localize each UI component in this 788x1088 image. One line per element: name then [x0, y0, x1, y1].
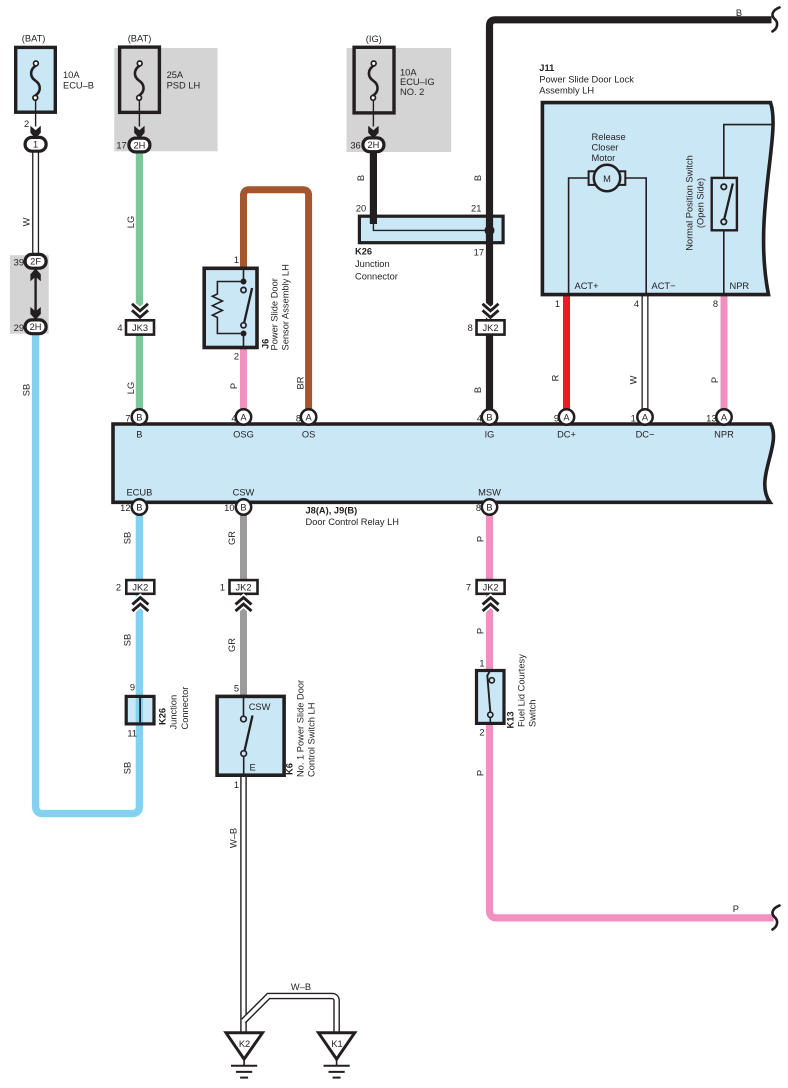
J11 NPR switch wires [724, 125, 772, 178]
svg-text:NPR: NPR [714, 430, 734, 440]
svg-text:OS: OS [302, 430, 315, 440]
svg-text:36: 36 [350, 140, 360, 150]
svg-text:12: 12 [120, 503, 130, 513]
svg-text:P: P [733, 904, 739, 914]
relay bottom circle B pin12 ECUB [132, 499, 147, 514]
svg-text:1: 1 [234, 255, 239, 265]
K26 upper junction dot [485, 225, 495, 235]
relay labels [120, 412, 734, 527]
svg-text:GR: GR [227, 638, 237, 652]
wire SB from 2H down-left loop to ECUB [36, 332, 140, 814]
svg-text:(Open Side): (Open Side) [696, 178, 706, 228]
wire GR from relay CSW to K6 pin 5 [240, 512, 247, 698]
svg-text:B: B [136, 412, 142, 422]
svg-text:K26: K26 [355, 247, 372, 257]
break symbol bottom right P wire [772, 906, 779, 930]
svg-text:CSW: CSW [233, 488, 255, 498]
svg-text:17: 17 [116, 141, 126, 151]
svg-text:B: B [473, 175, 483, 181]
K6 switch internals [241, 698, 253, 774]
junction JK2 (7) chevrons [483, 598, 499, 612]
svg-text:Release: Release [592, 132, 626, 142]
svg-text:13: 13 [706, 413, 716, 423]
fuse F2 symbol [135, 61, 144, 127]
K13 switch internals [487, 672, 494, 722]
svg-text:2: 2 [24, 119, 29, 129]
svg-text:P: P [476, 536, 486, 542]
K13 labels [479, 654, 537, 738]
svg-text:ACT−: ACT− [652, 281, 676, 291]
svg-text:21: 21 [471, 203, 481, 213]
svg-text:NPR: NPR [730, 281, 750, 291]
J6 internal: top lead [243, 270, 245, 281]
svg-text:SB: SB [123, 762, 133, 774]
svg-text:4: 4 [634, 299, 639, 309]
relay top circle A pin8 OS [301, 409, 316, 424]
svg-text:B: B [136, 430, 142, 440]
svg-text:P: P [229, 383, 239, 389]
svg-text:1: 1 [234, 780, 239, 790]
svg-text:A: A [563, 412, 570, 422]
svg-text:K2: K2 [239, 1039, 250, 1049]
break symbol top right B wire [772, 7, 779, 31]
relay bottom circle B pin10 CSW [236, 499, 251, 514]
J6 switch lever and contacts [241, 279, 253, 347]
svg-text:P: P [476, 628, 486, 634]
svg-text:2H: 2H [367, 140, 379, 150]
svg-text:MSW: MSW [478, 488, 501, 498]
fuse F1 10A ECU-B box [16, 47, 56, 112]
svg-text:(BAT): (BAT) [128, 34, 152, 44]
fuse F2 25A PSD LH box [120, 47, 160, 112]
relay top circle A pin13 NPR [716, 409, 731, 424]
junction JK2 (7) box [477, 580, 505, 594]
normal position switch contacts and lever [721, 184, 733, 225]
svg-text:SB: SB [22, 384, 32, 396]
connector 2F 2H labels [14, 257, 42, 333]
relay top circle B pin4 IG [482, 409, 497, 424]
J6 resistor branch [212, 282, 243, 334]
svg-text:W–B: W–B [229, 828, 239, 848]
wire W from J11 ACT- to relay DC- (white wire) [642, 296, 649, 411]
fuse F3 labels [350, 34, 434, 150]
svg-text:2: 2 [234, 352, 239, 362]
svg-text:A: A [642, 412, 649, 422]
svg-text:GR: GR [227, 531, 237, 545]
svg-text:J11: J11 [539, 63, 554, 73]
junction JK2 (2) chevrons [132, 598, 148, 612]
svg-text:JK2: JK2 [483, 583, 499, 593]
relay top circle B pin7 [132, 409, 147, 424]
junction connector K26 lower fill [126, 696, 154, 724]
svg-text:DC−: DC− [636, 430, 655, 440]
svg-text:K26: K26 [158, 708, 168, 725]
junction JK2 (8) chevrons [483, 304, 499, 318]
wire B from ECU-IG fuse to K26 pin 20 [370, 151, 377, 224]
fuse F1 labels [22, 34, 94, 150]
double arrow between 2F and 2H [30, 269, 40, 320]
svg-text:4: 4 [117, 323, 122, 333]
svg-text:Connector: Connector [355, 272, 398, 282]
K26 upper labels [355, 203, 484, 281]
svg-text:NO. 2: NO. 2 [400, 87, 424, 97]
svg-text:4: 4 [231, 413, 236, 423]
svg-text:B: B [486, 502, 492, 512]
K26 lower labels [127, 682, 190, 738]
svg-text:ACT+: ACT+ [575, 281, 599, 291]
svg-text:39: 39 [14, 257, 24, 267]
svg-text:P: P [710, 377, 720, 383]
svg-text:1: 1 [555, 299, 560, 309]
motor M release closer motor [589, 165, 626, 191]
svg-text:Power Slide Door: Power Slide Door [269, 278, 279, 350]
svg-text:1: 1 [33, 140, 38, 150]
svg-text:9: 9 [554, 413, 559, 423]
JK junction labels [116, 323, 499, 593]
J11 Power Slide Door Lock Assembly LH box [542, 103, 773, 295]
svg-text:Junction: Junction [355, 259, 390, 269]
wire W-B from K6 pin 1 to ground K2 (white wire) [240, 773, 247, 1034]
relay bottom circle B pin8 MSW [482, 499, 497, 514]
J11 labels [539, 63, 749, 309]
wire LG fuse2 to relay pin 7 [136, 152, 143, 411]
svg-text:SB: SB [123, 532, 133, 544]
J6 labels [234, 255, 290, 362]
svg-text:B: B [473, 387, 483, 393]
svg-text:1: 1 [220, 583, 225, 593]
svg-text:K13: K13 [506, 711, 516, 728]
svg-text:B: B [136, 502, 142, 512]
svg-text:B: B [240, 502, 246, 512]
svg-text:10: 10 [224, 503, 234, 513]
junction JK2 (1) box [230, 580, 258, 594]
K6 No.1 Power Slide Door Control Switch LH box [217, 696, 284, 775]
svg-text:2: 2 [479, 727, 484, 737]
svg-text:A: A [240, 412, 247, 422]
fuse F1 symbol [31, 61, 40, 127]
ground K1 [319, 1033, 355, 1078]
svg-text:7: 7 [466, 583, 471, 593]
J11 motor wires [569, 178, 589, 293]
svg-text:8: 8 [713, 299, 718, 309]
wire W fuse1 to 2F (white wire) [32, 151, 39, 256]
door control relay J8/J9 box [113, 424, 773, 502]
svg-text:LG: LG [126, 216, 136, 228]
svg-text:W–B: W–B [291, 982, 311, 992]
junction connector K26 upper border [359, 216, 503, 243]
svg-text:2H: 2H [30, 322, 42, 332]
svg-text:CSW: CSW [249, 702, 271, 712]
fuse F3 10A ECU-IG NO.2 box [354, 47, 394, 113]
svg-text:4: 4 [477, 413, 482, 423]
svg-text:R: R [551, 374, 561, 381]
fuse F3 symbol [369, 61, 378, 127]
J6 Power Slide Door Sensor Assembly LH box [204, 268, 257, 347]
svg-text:5: 5 [234, 684, 239, 694]
svg-text:IG: IG [485, 430, 495, 440]
svg-text:JK3: JK3 [132, 323, 148, 333]
svg-text:11: 11 [127, 729, 137, 739]
wire P from J6 pin 2 to relay OSG [240, 349, 247, 411]
svg-text:K6: K6 [285, 763, 295, 775]
svg-text:1: 1 [479, 659, 484, 669]
svg-text:PSD LH: PSD LH [167, 80, 201, 90]
svg-text:10A: 10A [400, 67, 417, 77]
connector oval 2H left [25, 320, 46, 334]
svg-text:10A: 10A [63, 70, 80, 80]
svg-text:A: A [305, 412, 312, 422]
wire BR from J6 pin 1 over to relay OS [244, 190, 309, 411]
svg-text:(IG): (IG) [366, 34, 382, 44]
relay top circle A pin1 DC- [637, 409, 652, 424]
junction JK2 (1) chevrons [236, 598, 252, 612]
svg-text:P: P [476, 770, 486, 776]
svg-text:2F: 2F [30, 257, 41, 267]
relay top circle A pin4 OSG [236, 409, 251, 424]
ground K2 [226, 1033, 263, 1078]
wire P from J11 NPR to relay NPR [721, 296, 728, 411]
svg-text:2H: 2H [133, 140, 145, 150]
svg-text:ECUB: ECUB [126, 488, 152, 498]
svg-text:Power Slide Door Lock: Power Slide Door Lock [539, 75, 634, 85]
svg-text:DC+: DC+ [557, 430, 576, 440]
fuse F2 output arrow [134, 126, 144, 139]
connector oval 2H fuse3 [363, 138, 384, 152]
svg-text:8: 8 [476, 503, 481, 513]
svg-text:W: W [22, 217, 32, 226]
svg-text:ECU–IG: ECU–IG [400, 77, 435, 87]
svg-text:BR: BR [296, 376, 306, 389]
svg-text:Door Control Relay LH: Door Control Relay LH [306, 517, 400, 527]
svg-text:JK2: JK2 [482, 323, 498, 333]
svg-text:Motor: Motor [592, 153, 616, 163]
junction JK3 box [126, 320, 154, 334]
K13 Fuel Lid Courtesy Switch box [477, 671, 505, 724]
svg-text:E: E [250, 763, 256, 773]
svg-text:JK2: JK2 [235, 583, 251, 593]
svg-text:Sensor Assembly LH: Sensor Assembly LH [280, 264, 290, 350]
svg-text:8: 8 [468, 323, 473, 333]
wire R from J11 ACT+ to relay DC+ [563, 296, 570, 411]
svg-text:8: 8 [296, 413, 301, 423]
ground name labels [239, 1039, 343, 1049]
junction connector K26 lower border [126, 696, 154, 724]
svg-text:7: 7 [125, 413, 130, 423]
svg-text:OSG: OSG [233, 430, 254, 440]
junction JK2 (8) box [477, 320, 505, 334]
svg-text:20: 20 [356, 203, 366, 213]
wire P from relay MSW down to right break [490, 512, 774, 918]
svg-text:B: B [736, 8, 742, 18]
svg-text:B: B [356, 175, 366, 181]
connector oval 2F [25, 254, 46, 268]
svg-text:Normal Position Switch: Normal Position Switch [685, 155, 695, 251]
gray panel behind fuse PSD LH [114, 48, 217, 151]
svg-text:Switch: Switch [528, 700, 538, 727]
gray panel around connectors 2F/2H [10, 255, 49, 334]
junction JK3 chevrons [132, 304, 148, 318]
normal position switch box [712, 178, 737, 230]
svg-text:Fuel Lid Courtesy: Fuel Lid Courtesy [517, 654, 527, 727]
svg-text:29: 29 [14, 323, 24, 333]
svg-text:Junction: Junction [169, 695, 179, 730]
svg-text:Assembly LH: Assembly LH [539, 85, 594, 95]
svg-text:K1: K1 [331, 1039, 342, 1049]
svg-text:J8(A), J9(B): J8(A), J9(B) [306, 506, 358, 516]
fuse F1 output arrow [30, 126, 40, 139]
fuse F2 labels [116, 34, 200, 151]
svg-text:W: W [629, 375, 639, 384]
junction JK2 (2) box [126, 580, 154, 594]
wire B main from top break down to relay IG [490, 20, 772, 411]
svg-text:SB: SB [123, 634, 133, 646]
svg-text:ECU–B: ECU–B [63, 80, 94, 90]
K26 lower divider [139, 698, 141, 722]
svg-text:2: 2 [116, 583, 121, 593]
svg-text:M: M [603, 174, 611, 184]
K26 upper internal wire [373, 221, 489, 230]
svg-text:1: 1 [631, 413, 636, 423]
wire W-B branch to ground K1 (white wire) [244, 996, 337, 1034]
svg-text:17: 17 [474, 247, 484, 257]
connector oval 2H fuse2 [129, 138, 150, 152]
junction connector K26 upper fill [359, 216, 503, 243]
svg-text:JK2: JK2 [132, 583, 148, 593]
svg-text:A: A [721, 412, 728, 422]
svg-text:(BAT): (BAT) [22, 34, 46, 44]
connector oval 1 [25, 137, 46, 151]
svg-text:B: B [486, 412, 492, 422]
svg-text:25A: 25A [167, 70, 184, 80]
fuse F3 output arrow [368, 126, 378, 139]
K6 labels [234, 680, 317, 790]
svg-text:Connector: Connector [180, 687, 190, 730]
gray panel behind fuse ECU-IG [347, 48, 452, 152]
svg-text:LG: LG [126, 382, 136, 394]
svg-text:Control Switch LH: Control Switch LH [307, 703, 317, 777]
svg-text:No. 1 Power Slide Door: No. 1 Power Slide Door [296, 680, 306, 777]
svg-text:9: 9 [130, 682, 135, 692]
svg-text:Closer: Closer [592, 143, 619, 153]
relay top circle A pin9 DC+ [559, 409, 574, 424]
